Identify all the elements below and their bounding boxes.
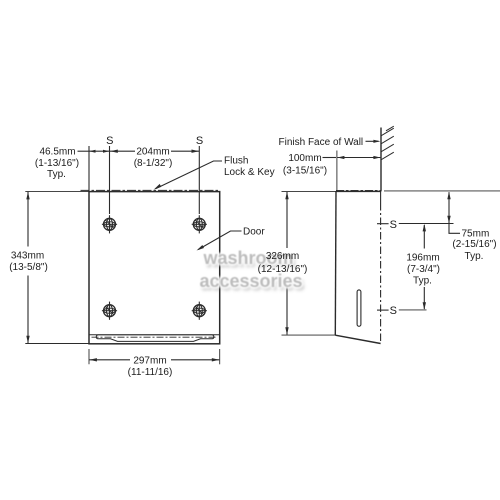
dimension 46.5mm leader bbox=[78, 150, 89, 152]
front view slot centerline bbox=[92, 336, 218, 338]
wall line bbox=[380, 128, 382, 192]
svg-text:Door: Door bbox=[243, 227, 265, 238]
svg-text:Finish Face of Wall: Finish Face of Wall bbox=[279, 137, 364, 148]
leader 75mm bbox=[449, 223, 460, 233]
svg-text:S: S bbox=[196, 135, 203, 147]
extension line 326 bottom bbox=[282, 334, 336, 336]
extension line 75 top bbox=[384, 190, 500, 192]
leader flush lock and key bbox=[156, 161, 223, 189]
side view top edge bbox=[336, 190, 381, 192]
svg-text:(11-11/16): (11-11/16) bbox=[128, 367, 173, 378]
side view top hidden dash-dot bbox=[336, 189, 381, 191]
leader finish face of wall bbox=[366, 140, 379, 142]
mounting hole top-left bbox=[102, 215, 117, 233]
front view bottom tray fold line bbox=[89, 334, 220, 336]
svg-text:(1-13/16"): (1-13/16") bbox=[35, 158, 79, 169]
svg-text:S: S bbox=[390, 305, 397, 317]
svg-text:100mm: 100mm bbox=[288, 153, 321, 164]
svg-text:(3-15/16"): (3-15/16") bbox=[283, 166, 327, 177]
side view front (left) edge bbox=[334, 191, 337, 335]
watermark accessories bbox=[0, 272, 500, 290]
svg-text:297mm: 297mm bbox=[133, 356, 166, 367]
watermark washroom bbox=[0, 249, 500, 267]
dimension 196mm line bbox=[423, 225, 425, 249]
extension line 343 top bbox=[25, 190, 89, 192]
mounting hole bottom-left bbox=[102, 302, 117, 320]
svg-text:Flush: Flush bbox=[224, 155, 248, 166]
hole centerline S right bbox=[198, 146, 200, 214]
svg-text:Lock & Key: Lock & Key bbox=[224, 167, 275, 178]
dimension line 46.5mm bbox=[89, 150, 110, 152]
svg-text:46.5mm: 46.5mm bbox=[39, 147, 75, 158]
extension line 326 top bbox=[282, 190, 337, 192]
wall hatching bbox=[386, 126, 394, 131]
front view top hidden dash-dot line bbox=[81, 189, 220, 191]
dimension 297mm extension lines bbox=[88, 349, 90, 364]
extension line 343 bottom bbox=[25, 343, 89, 345]
dimension 326mm line bbox=[286, 192, 288, 248]
side view back edge / stud centerline bbox=[380, 191, 382, 203]
svg-text:(8-1/32"): (8-1/32") bbox=[134, 158, 173, 169]
side view bottom edge bbox=[335, 335, 380, 343]
svg-text:204mm: 204mm bbox=[136, 147, 169, 158]
side view lock slot bbox=[357, 290, 361, 326]
extension line 100mm bbox=[336, 151, 338, 192]
dimension 75mm line bbox=[448, 192, 450, 223]
dimension 297mm line bbox=[89, 359, 130, 361]
front view towel dispensing slot bbox=[96, 335, 214, 342]
leader door bbox=[198, 231, 241, 250]
mounting hole top-right bbox=[192, 215, 207, 233]
front view cabinet outline bbox=[89, 192, 220, 344]
extension line top-left edge bbox=[88, 146, 90, 191]
svg-text:S: S bbox=[390, 219, 397, 231]
svg-text:S: S bbox=[106, 135, 113, 147]
text 326mm above watermark bbox=[242, 252, 323, 262]
hole centerline S left bbox=[109, 146, 111, 214]
svg-text:Typ.: Typ. bbox=[47, 169, 66, 180]
mounting hole bottom-right bbox=[192, 302, 207, 320]
S tick lower bbox=[377, 309, 389, 311]
S tick upper bbox=[377, 223, 389, 225]
dimension 343mm line bbox=[27, 192, 29, 247]
dimension line 204mm bbox=[110, 150, 135, 152]
leader 100mm bbox=[323, 157, 337, 159]
dimension line 100mm bbox=[337, 157, 380, 159]
